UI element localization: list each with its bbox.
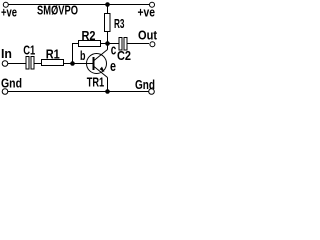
- transistor TR1: [87, 50, 108, 78]
- svg-text:+ve: +ve: [138, 5, 156, 20]
- capacitor C1: [26, 57, 34, 70]
- capacitor C2: [119, 38, 127, 51]
- wire R3 bottom lead: [107, 32, 109, 44]
- svg-text:b: b: [80, 48, 86, 63]
- svg-text:c: c: [111, 42, 117, 58]
- terminal Gnd right: [149, 89, 155, 95]
- junction collector node: [105, 41, 110, 46]
- wire collector node to C2: [108, 43, 120, 45]
- svg-text:In: In: [1, 46, 12, 61]
- wire R1 to base: [64, 63, 93, 65]
- terminal In: [2, 61, 8, 67]
- terminal Gnd left: [2, 89, 8, 95]
- svg-text:+ve: +ve: [1, 5, 17, 20]
- wire C2 to Out: [127, 43, 149, 45]
- wire collector lead: [107, 46, 109, 50]
- junction top rail / R3: [105, 2, 110, 7]
- svg-text:C1: C1: [23, 43, 35, 58]
- wire ground rail: [8, 91, 150, 93]
- wire R2 left lead to base node: [73, 44, 79, 64]
- svg-text:R3: R3: [114, 16, 125, 31]
- resistor R3: [105, 14, 111, 32]
- resistor R2: [79, 41, 101, 47]
- junction base node: [70, 61, 75, 66]
- terminal +ve left: [3, 2, 8, 7]
- svg-text:Gnd: Gnd: [135, 77, 155, 92]
- svg-text:Out: Out: [138, 28, 158, 43]
- svg-text:C2: C2: [117, 48, 131, 63]
- wire In to C1: [8, 63, 27, 65]
- wire R2 right lead: [101, 43, 108, 45]
- wire C1 to R1: [34, 63, 42, 65]
- terminal Out: [150, 42, 155, 47]
- wire top supply rail: [8, 4, 149, 6]
- junction emitter / ground rail: [105, 89, 110, 94]
- wire R3 top lead: [107, 5, 109, 14]
- svg-text:TR1: TR1: [87, 75, 105, 90]
- wire emitter lead: [107, 78, 109, 92]
- terminal +ve right: [150, 2, 155, 7]
- svg-text:Gnd: Gnd: [1, 75, 22, 90]
- resistor R1: [42, 60, 64, 66]
- svg-text:e: e: [110, 59, 116, 75]
- svg-text:SMØVPO: SMØVPO: [37, 3, 78, 18]
